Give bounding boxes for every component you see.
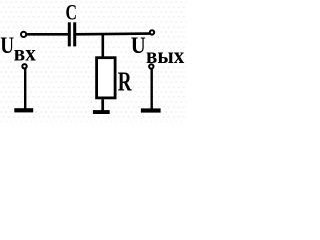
svg-text:вх: вх bbox=[14, 41, 36, 67]
svg-text:U: U bbox=[131, 33, 146, 59]
svg-text:R: R bbox=[118, 67, 133, 97]
svg-text:U: U bbox=[0, 33, 14, 59]
svg-text:вых: вых bbox=[146, 43, 185, 69]
svg-text:C: C bbox=[66, 0, 78, 25]
